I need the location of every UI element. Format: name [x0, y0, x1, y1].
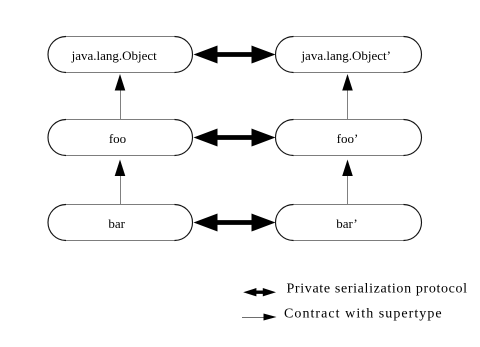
svg-text:Contract with supertype: Contract with supertype — [284, 307, 443, 322]
svg-text:java.lang.Object’: java.lang.Object’ — [300, 48, 391, 63]
svg-text:java.lang.Object: java.lang.Object — [71, 48, 158, 63]
svg-text:foo’: foo’ — [337, 131, 359, 146]
svg-text:bar: bar — [108, 216, 125, 231]
svg-text:Private serialization protocol: Private serialization protocol — [287, 282, 468, 297]
svg-text:foo: foo — [109, 131, 126, 146]
svg-text:bar’: bar’ — [336, 216, 357, 231]
